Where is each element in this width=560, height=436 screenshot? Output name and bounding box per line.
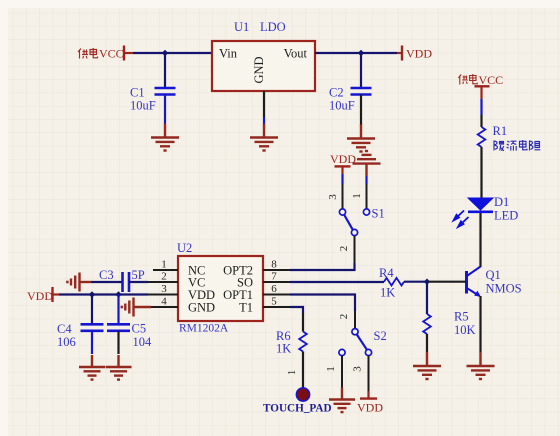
switch S1 bbox=[339, 207, 384, 236]
power port VDD (above S1) bbox=[330, 152, 356, 174]
pin 2 of S1 bbox=[354, 236, 356, 263]
svg-text:1: 1 bbox=[161, 259, 167, 271]
svg-text:104: 104 bbox=[133, 335, 153, 349]
svg-text:VDD: VDD bbox=[406, 47, 432, 61]
svg-text:VDD: VDD bbox=[330, 152, 356, 166]
svg-text:VDD: VDD bbox=[27, 289, 53, 303]
svg-text:NMOS: NMOS bbox=[486, 282, 522, 296]
ground (rotated) at C3 bbox=[67, 273, 91, 292]
svg-text:3: 3 bbox=[327, 194, 339, 200]
power port VDD (below S2) bbox=[357, 391, 383, 415]
ground (rotated) at pin4 bbox=[122, 298, 151, 317]
svg-text:U1: U1 bbox=[234, 20, 249, 34]
svg-text:Q1: Q1 bbox=[486, 268, 501, 282]
ground under C1 bbox=[151, 124, 179, 151]
TOUCH_PAD pad bbox=[296, 388, 309, 401]
svg-text:GND: GND bbox=[252, 56, 266, 83]
svg-text:RM1202A: RM1202A bbox=[179, 323, 229, 335]
pin of R6 bbox=[302, 313, 304, 332]
svg-text:7: 7 bbox=[271, 271, 277, 283]
svg-text:8: 8 bbox=[271, 259, 277, 271]
wire below C2 bbox=[360, 95, 362, 126]
svg-text:106: 106 bbox=[57, 335, 76, 349]
svg-text:10uF: 10uF bbox=[329, 99, 355, 113]
svg-text:6: 6 bbox=[271, 283, 277, 295]
node junction C4 bbox=[89, 291, 95, 297]
svg-text:C3: C3 bbox=[99, 268, 114, 282]
ground under Q1 bbox=[467, 352, 495, 379]
node junction C5 bbox=[115, 291, 121, 297]
wire S1 to OPT2 bbox=[290, 263, 355, 270]
wire VCC to U1 Vin bbox=[133, 52, 212, 54]
svg-text:D1: D1 bbox=[494, 195, 509, 209]
ground under C2 bbox=[347, 125, 375, 152]
power port VDD (top right) bbox=[397, 46, 432, 61]
wire Q1 emitter down bbox=[479, 296, 481, 352]
svg-text:GND: GND bbox=[188, 300, 215, 314]
pin 1 of S1 bbox=[366, 184, 368, 209]
pin 8 bbox=[263, 269, 290, 271]
wire bbox=[341, 174, 343, 184]
op-amp U1 LDO regulator box bbox=[212, 20, 315, 91]
svg-text:C5: C5 bbox=[132, 322, 147, 336]
node junction R5/base bbox=[424, 279, 430, 285]
diode D1 LED bbox=[454, 195, 519, 227]
ground under C5 bbox=[106, 355, 132, 380]
wire Vout to VDD bbox=[315, 52, 397, 54]
svg-text:2: 2 bbox=[161, 271, 167, 283]
pin 1 of S2 bbox=[341, 356, 343, 388]
svg-text:LDO: LDO bbox=[260, 20, 286, 34]
svg-text:LED: LED bbox=[494, 209, 518, 223]
wire C1 lead bbox=[164, 53, 166, 88]
svg-text:Vout: Vout bbox=[284, 47, 308, 61]
wire to C3 bbox=[91, 281, 122, 283]
pin 3 of S1 bbox=[342, 184, 344, 209]
switch S2 bbox=[339, 329, 387, 356]
svg-text:TOUCH_PAD: TOUCH_PAD bbox=[263, 403, 332, 415]
svg-text:S1: S1 bbox=[372, 207, 385, 221]
svg-text:3: 3 bbox=[352, 366, 364, 372]
svg-text:R1: R1 bbox=[493, 124, 508, 138]
svg-text:2: 2 bbox=[338, 246, 350, 252]
IC U2 RM1202A bbox=[177, 241, 263, 335]
svg-text:Vin: Vin bbox=[219, 47, 238, 61]
svg-text:R5: R5 bbox=[454, 310, 469, 324]
wire R5 to ground bbox=[426, 334, 428, 352]
wire SO to R4 bbox=[290, 281, 384, 283]
wire junction to Q1 base bbox=[427, 281, 466, 283]
wire below C5 bbox=[117, 331, 119, 354]
svg-text:1: 1 bbox=[286, 370, 298, 376]
wire below C4 bbox=[91, 331, 93, 354]
capacitor C3 bbox=[123, 272, 130, 292]
svg-text:U2: U2 bbox=[177, 241, 192, 255]
svg-text:3: 3 bbox=[161, 283, 167, 295]
wire T1 to R6 bbox=[290, 307, 303, 313]
pin 4 bbox=[151, 306, 178, 308]
pin bbox=[480, 115, 482, 127]
wire C2 lead bbox=[360, 53, 362, 88]
wire bbox=[365, 176, 367, 184]
capacitor C4 bbox=[81, 324, 104, 331]
svg-text:VCC: VCC bbox=[479, 73, 504, 87]
svg-text:VDD: VDD bbox=[357, 401, 383, 415]
pin GND of U1 bbox=[263, 91, 265, 117]
svg-text:4: 4 bbox=[161, 296, 167, 308]
power port VDD (left) bbox=[27, 287, 59, 303]
resistor R6 bbox=[299, 332, 307, 352]
resistor R4 bbox=[384, 278, 404, 286]
transistor Q1 bbox=[467, 267, 522, 297]
pin 3 bbox=[148, 294, 178, 296]
pin 7 bbox=[263, 281, 290, 283]
svg-text:5P: 5P bbox=[132, 268, 145, 282]
pin 6 bbox=[263, 294, 290, 296]
wire junction down to R5 bbox=[426, 282, 428, 314]
svg-text:C2: C2 bbox=[329, 86, 344, 100]
ground under U1 bbox=[250, 124, 278, 151]
power port 供电VCC (right) bbox=[458, 73, 503, 99]
value 限流电阻 bbox=[494, 140, 540, 151]
wire bbox=[263, 117, 265, 126]
svg-text:1K: 1K bbox=[380, 286, 395, 300]
ground (inverted) above S1 pin1 bbox=[353, 151, 381, 176]
svg-text:C1: C1 bbox=[130, 86, 145, 100]
svg-text:10K: 10K bbox=[454, 323, 476, 337]
node junction at C2 bbox=[358, 50, 364, 56]
wire LED to Q1 collector bbox=[479, 213, 481, 267]
wire VDD rail bbox=[59, 293, 148, 295]
ground under R5 bbox=[413, 352, 441, 379]
pin 2 bbox=[148, 281, 178, 283]
svg-text:R4: R4 bbox=[379, 266, 394, 280]
power port 供电VCC (left) bbox=[78, 46, 133, 61]
pin 5 bbox=[263, 306, 290, 308]
pin 3 of S2 bbox=[368, 356, 370, 391]
svg-text:S2: S2 bbox=[374, 329, 387, 343]
ground under S2 bbox=[329, 388, 355, 413]
pin 2 of S2 bbox=[354, 311, 356, 329]
svg-text:T1: T1 bbox=[239, 300, 253, 314]
pin 1 NC stub bbox=[153, 269, 178, 271]
wire R1 to LED bbox=[480, 147, 482, 198]
svg-text:10uF: 10uF bbox=[130, 99, 156, 113]
wire below C1 bbox=[164, 95, 166, 125]
svg-text:1: 1 bbox=[351, 193, 363, 199]
resistor R1 bbox=[478, 127, 486, 147]
node junction at C1 bbox=[162, 50, 168, 56]
wire R6 to TOUCH_PAD bbox=[302, 352, 304, 389]
ground under C4 bbox=[79, 355, 105, 380]
wire C4 lead bbox=[91, 295, 93, 325]
capacitor C2 bbox=[351, 88, 372, 95]
capacitor C5 bbox=[107, 324, 130, 331]
wire OPT1 to S2 bbox=[290, 295, 355, 312]
resistor R5 bbox=[423, 314, 431, 334]
wire R4 to junction bbox=[404, 281, 427, 283]
wire C3 to pin2 bbox=[129, 281, 148, 283]
svg-text:VCC: VCC bbox=[99, 47, 124, 61]
svg-text:1: 1 bbox=[325, 366, 337, 372]
svg-text:1K: 1K bbox=[276, 341, 291, 355]
svg-text:5: 5 bbox=[271, 296, 277, 308]
wire C5 lead bbox=[117, 295, 119, 325]
svg-text:2: 2 bbox=[338, 314, 350, 320]
wire bbox=[480, 99, 482, 115]
capacitor C1 bbox=[155, 88, 176, 95]
